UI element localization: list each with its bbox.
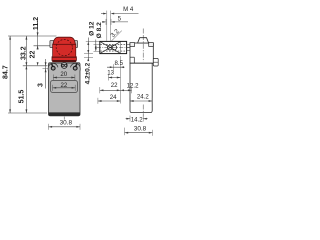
head corner tab left (side) xyxy=(130,43,135,47)
head body (red) xyxy=(53,44,76,58)
keyhole slot right xyxy=(75,64,76,67)
axle circles xyxy=(107,45,112,50)
svg-text:30.8: 30.8 xyxy=(60,119,73,126)
body top edge xyxy=(49,62,81,64)
extension line: roller top reference xyxy=(8,35,57,37)
svg-text:Ø 8.2: Ø 8.2 xyxy=(96,22,103,38)
dimension 4.2+-0.2 pretravel xyxy=(87,54,89,61)
head bottom-left step xyxy=(130,56,134,58)
mounting ear left xyxy=(48,63,58,70)
switch body (side view) xyxy=(130,63,152,112)
svg-text:Ø 12: Ø 12 xyxy=(88,21,95,36)
svg-text:11.2: 11.2 xyxy=(33,17,40,30)
M4 boss trapezoid xyxy=(138,38,149,43)
svg-text:33.2: 33.2 xyxy=(21,46,28,60)
svg-text:8.5: 8.5 xyxy=(115,60,124,67)
svg-text:M 4: M 4 xyxy=(123,6,134,13)
head side tab left (grey) xyxy=(50,41,55,48)
svg-text:24.2: 24.2 xyxy=(137,93,149,100)
head dome (red) xyxy=(53,37,75,44)
bottom centreline tick (side view) xyxy=(142,105,144,117)
svg-text:4.2±0.2: 4.2±0.2 xyxy=(85,62,92,84)
3.2 label with 45deg leader xyxy=(111,31,122,42)
head flange seam xyxy=(52,56,76,58)
rear protrusion (side view) xyxy=(153,58,158,66)
divider line lever/head side xyxy=(120,41,122,53)
lever hub stack at head face xyxy=(127,44,130,46)
cross lines on roller xyxy=(100,41,121,53)
hub hidden lines (dashed) xyxy=(100,43,126,45)
roller lever block (side view) xyxy=(100,41,127,53)
dimension 22 seam to junction xyxy=(37,46,39,50)
centre tick under body xyxy=(63,117,65,120)
svg-text:3: 3 xyxy=(38,83,45,87)
extension line: dome seam level xyxy=(34,45,52,47)
extension lines up from axle xyxy=(106,17,108,41)
svg-text:22: 22 xyxy=(111,82,118,89)
head side tab right (grey) xyxy=(72,41,77,48)
dome seam line xyxy=(53,43,75,45)
head corner tab right (side) xyxy=(149,43,154,47)
head base flange (red) xyxy=(52,57,76,61)
hidden roller circle (dashed) in head xyxy=(56,40,72,56)
cover outline (rounded rect) on body xyxy=(50,80,77,92)
dimension 84.7 overall height xyxy=(9,36,11,113)
svg-text:30.8: 30.8 xyxy=(134,126,147,133)
svg-text:12.2: 12.2 xyxy=(127,82,139,89)
extension line: body bottom xyxy=(8,112,47,114)
dimension 33.2 head height xyxy=(25,36,27,66)
switch body front view (grey) xyxy=(49,63,81,116)
dimension 11.2 roller height xyxy=(37,21,39,50)
head base dark band xyxy=(52,60,76,62)
extension line: head-body junction xyxy=(23,65,48,67)
dimension 51.5 body height xyxy=(25,66,27,113)
svg-text:22: 22 xyxy=(30,51,37,59)
lever centreline xyxy=(97,47,130,49)
dimension 3 junction to hole centre xyxy=(45,59,47,89)
boss centreline dash-dot xyxy=(142,29,144,34)
mounting ear right xyxy=(71,63,81,70)
svg-text:24: 24 xyxy=(110,94,117,101)
reference extension line xyxy=(119,56,121,104)
svg-text:20: 20 xyxy=(60,71,67,78)
svg-text:14.2: 14.2 xyxy=(131,117,143,124)
pretravel trip line xyxy=(84,57,93,59)
keyhole slot left xyxy=(52,64,53,67)
svg-text:84.7: 84.7 xyxy=(3,65,10,79)
extension lines roller left side xyxy=(86,40,100,42)
bottom dark band of body xyxy=(49,112,81,115)
svg-text:51.5: 51.5 xyxy=(19,90,26,104)
centre plug on body top xyxy=(61,62,67,68)
head (side view) xyxy=(130,43,153,63)
